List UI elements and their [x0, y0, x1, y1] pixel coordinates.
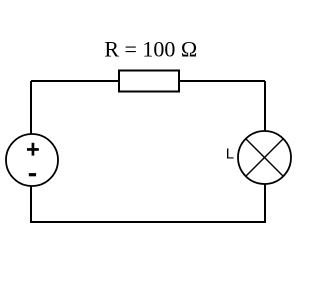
svg-text:L: L — [226, 146, 234, 163]
lamp L — [238, 131, 291, 184]
wire top horizontal — [31, 80, 265, 82]
wire left vertical — [30, 81, 32, 222]
voltage source plus terminal — [27, 143, 39, 156]
wire bottom horizontal — [30, 221, 266, 223]
resistor R1 — [119, 71, 179, 92]
svg-text:R = 100 Ω: R = 100 Ω — [104, 37, 197, 62]
wire right vertical — [264, 81, 266, 222]
voltage source V1 — [6, 134, 58, 186]
voltage source minus terminal — [29, 173, 36, 176]
